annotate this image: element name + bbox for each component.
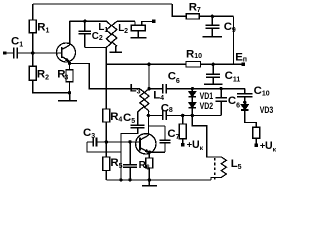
wire L5 bottom to rail [211, 177, 221, 180]
wire C10 bottom lead [244, 97, 246, 102]
inductor L5 zigzag [221, 157, 226, 178]
wire VT2 collector riser [147, 115, 149, 135]
node R8 tap [181, 114, 184, 117]
VT1 base bar [61, 47, 63, 58]
wire VD3 to R11 [245, 110, 256, 127]
wire C11 top lead [212, 64, 214, 74]
node VD2 bottom [191, 114, 194, 117]
wire input to C1 [6, 52, 13, 54]
VT2 emitter arrow [145, 149, 150, 153]
crystal left top tick [134, 21, 136, 25]
node L4 top [147, 87, 150, 90]
diode VD1 [189, 92, 196, 97]
wire VD2 node to L5 [192, 115, 221, 156]
wire R6 top lead [148, 152, 150, 158]
resistor R2 body [29, 66, 36, 80]
resistor R11 body [253, 127, 260, 138]
wire R7 to corner [199, 15, 233, 17]
terminal +Uk left [181, 143, 184, 146]
wire bottom ground rail [106, 179, 211, 181]
wire R6 bottom lead [148, 168, 150, 180]
L5 core dashed line [214, 158, 216, 181]
wire collector to C7 [148, 125, 165, 127]
capacitor C7 plates [159, 140, 170, 143]
wire top supply rail [33, 3, 172, 5]
resistor R4 body [103, 109, 110, 122]
wire L3 bottom to C5 [138, 110, 140, 125]
node C4 bottom [128, 178, 131, 181]
node VT2 emitter [148, 151, 151, 154]
node C5b top [220, 87, 223, 90]
wire C8 to varicap bottom [167, 114, 221, 116]
inductor L4 [144, 89, 149, 111]
node C10/VD3 [243, 101, 246, 104]
crystal right wire [142, 21, 152, 25]
wire tank bottom rail [85, 47, 107, 49]
VT2 collector lead [140, 135, 148, 140]
wire C5b top lead [220, 89, 222, 98]
crystal stem [137, 31, 139, 38]
capacitor C2 plates [78, 31, 91, 34]
wire mid rail to R10 [106, 63, 186, 65]
ground (bottom rail) [142, 180, 157, 186]
terminal En [242, 63, 245, 66]
wire L2 top to crystal [117, 20, 135, 22]
diode VD2 [189, 103, 196, 108]
capacitor C6 [163, 84, 166, 94]
wire supply drop to En [233, 16, 235, 64]
node C4 tap [128, 140, 131, 143]
wire C2 top lead [84, 21, 86, 31]
wire VD2 bottom lead [191, 108, 193, 116]
wire C4 top lead [129, 142, 131, 165]
VT1 emitter lead [62, 57, 70, 62]
wire R2 top lead [32, 53, 34, 66]
wire R1 top lead [32, 4, 34, 20]
wire riser tank bottom through rail to R4 [105, 48, 107, 110]
resistor R1 body [29, 20, 36, 33]
svg-text:VD1: VD1 [200, 91, 214, 101]
wire C5b bottom lead [220, 101, 222, 115]
resistor R7 body [186, 14, 199, 19]
ground (L2) [109, 46, 121, 52]
resistor R3 body [66, 70, 73, 82]
capacitor C10 plates [237, 94, 253, 97]
terminal +Uk right [255, 144, 258, 147]
wire C10 top lead [244, 89, 246, 94]
wire VT1 emitter down [69, 61, 71, 63]
wire VD1 lead [191, 89, 193, 92]
svg-text:VD3: VD3 [260, 105, 274, 115]
wire VD1-VD2 [191, 97, 193, 103]
wire C7 bottom lead [164, 143, 166, 152]
capacitor C11 plates [206, 74, 220, 77]
capacitor C5b plates [216, 98, 227, 101]
wire C7 to emitter [149, 151, 165, 153]
output terminal (crystal) [152, 20, 155, 23]
input terminal [3, 51, 6, 54]
transistor VT2 [136, 134, 156, 154]
ground (C9) [203, 29, 223, 37]
capacitor C1 [14, 48, 17, 59]
node VT2 base / R4R5 [105, 140, 108, 143]
capacitor C5 [131, 125, 145, 128]
node tank top [83, 20, 86, 23]
wire C5 bottom drop [121, 128, 138, 180]
inductor L3 [140, 89, 145, 110]
capacitor C8 [163, 111, 166, 121]
inductor L1 [106, 21, 111, 47]
VT2 base bar [139, 138, 141, 151]
wire VT2 base line [97, 141, 140, 143]
VT2 emitter lead [140, 148, 149, 153]
wire C1 to VT1 base [18, 52, 61, 54]
wire L4 node to C8 [148, 114, 162, 116]
wire C7 top lead [164, 126, 166, 140]
resistor R10 body [186, 62, 201, 67]
wire R10 to En terminal [201, 63, 242, 65]
wire R5 bottom lead [105, 171, 107, 180]
VT1 collector lead [62, 45, 70, 49]
diode VD3 [241, 105, 248, 110]
wire C2 bottom lead [84, 34, 86, 47]
node R7/C9 [211, 15, 214, 18]
wire R3 bottom lead [69, 82, 71, 93]
capacitor C3 [93, 137, 96, 146]
wire C4 bottom lead [129, 168, 131, 180]
node VD2 bottom rail [191, 114, 194, 117]
node C5 drop [119, 178, 122, 181]
resistor R5 body [103, 157, 110, 171]
wire C9 top lead [211, 16, 213, 25]
wire emitter feedback to L3 [70, 63, 140, 88]
node R6 bottom [148, 178, 151, 181]
node R10/C11 [212, 63, 215, 66]
wire C3 left drop [87, 142, 121, 152]
ground (bias) [58, 93, 77, 101]
wire R8 top lead [182, 115, 184, 124]
wire C3 left stub [87, 141, 93, 143]
resistor R6 body [146, 158, 153, 168]
node ground junction [68, 91, 71, 94]
ground (C11) [204, 78, 223, 85]
node VD1 top [191, 87, 194, 90]
node mid rail / L4 branch [147, 63, 150, 66]
resistor R8 body [179, 124, 186, 139]
wire R11 bottom lead [255, 138, 257, 143]
VT1 emitter arrow [65, 58, 70, 62]
node VT1 emitter [68, 62, 71, 65]
node base-bias junction [31, 51, 34, 54]
crystal base bar [130, 37, 146, 39]
wire C6 to varicap rail [167, 88, 245, 90]
transistor VT1 [57, 43, 76, 62]
wire L4 node to C6 [149, 88, 162, 90]
wire VT1 collector riser [69, 21, 71, 45]
capacitor C9 plates [205, 25, 219, 28]
wire rail to R7 [172, 4, 186, 16]
inductor L2 zigzag [112, 21, 117, 46]
wire R3 top lead [69, 63, 71, 69]
wire L2 bottom lead [115, 46, 117, 51]
wire L4 bottom [147, 111, 150, 116]
wire R8 bottom lead [182, 139, 184, 144]
wire tank top rail [70, 20, 107, 22]
svg-text:VD2: VD2 [200, 101, 214, 111]
wire R2 bottom to ground rail [33, 80, 70, 92]
wire R1 bottom lead [32, 33, 34, 53]
wire R4-R5 column [105, 122, 107, 157]
wire rail to L4 top [148, 64, 150, 88]
capacitor C4 plates [123, 165, 137, 168]
node L4/collector [147, 114, 150, 117]
